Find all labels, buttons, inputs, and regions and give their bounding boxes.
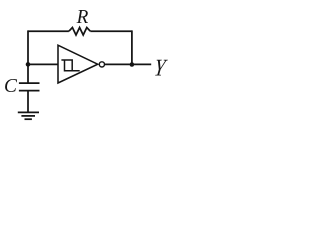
wire left vertical [27,30,29,83]
ground bar 3 [25,118,32,120]
ground bar 2 [21,115,35,117]
wire top-left lead to resistor [28,30,69,32]
wire resistor to top-right corner [90,30,132,32]
capacitor C1 bottom plate [19,90,40,92]
wire inverter output [105,63,151,65]
hysteresis symbol top segment [61,60,72,71]
svg-text:R: R [76,6,89,28]
svg-text:C: C [4,75,17,97]
wire capacitor to ground [27,91,29,113]
label Y [152,56,168,82]
inverter output bubble [99,62,104,67]
op-amp U1 (Schmitt-trigger inverter triangle) [58,45,98,83]
resistor R [69,28,90,36]
node output junction [130,62,135,67]
node input junction [26,62,31,67]
ground bar 1 [18,111,39,113]
wire right vertical [131,30,133,64]
wire inverter input [28,63,58,65]
capacitor C1 top plate [19,82,40,84]
svg-text:Y: Y [152,56,168,82]
hysteresis symbol bottom segment [65,60,80,71]
